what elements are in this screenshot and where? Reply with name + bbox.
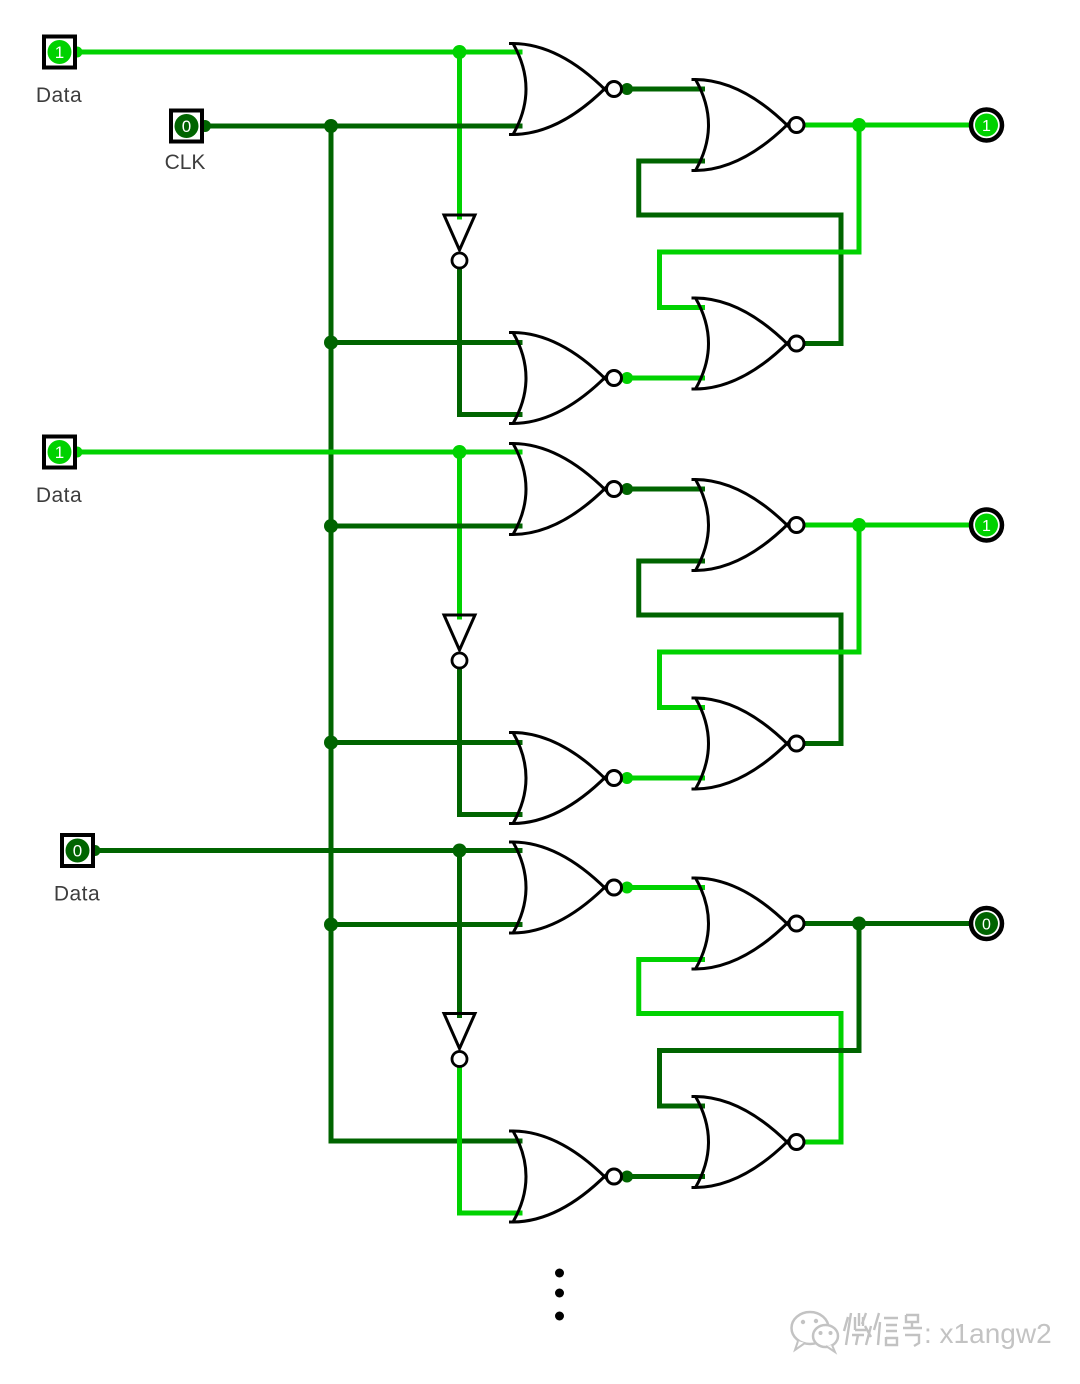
svg-text:1: 1 <box>982 518 991 535</box>
NOR gate G12 <box>692 1097 805 1188</box>
wire Data1 vertical to inverter <box>457 52 462 217</box>
wire gate output G3 to G4 block 1 <box>622 376 703 381</box>
node Q2 junction <box>852 518 866 532</box>
wire CLK vertical bus <box>329 126 334 1141</box>
svg-text:CLK: CLK <box>165 151 206 174</box>
wire Data3 horizontal <box>93 848 520 853</box>
NOR gate G6 <box>692 480 805 571</box>
wire inverter output block 3 <box>460 1068 521 1214</box>
wire Q-bar feedback block 1 <box>639 161 841 344</box>
node gate G9 output dot <box>621 882 633 894</box>
svg-text:: x1angw2: : x1angw2 <box>924 1318 1052 1349</box>
wire CLK branch to gate G9 <box>331 922 520 927</box>
node Data2 pin connection <box>72 447 83 458</box>
NOR gate G3 <box>509 333 622 424</box>
output pin Q1 <box>971 110 1002 141</box>
continuation ellipsis dots <box>555 1269 564 1321</box>
node Data3 junction <box>453 844 467 858</box>
wire CLK overdraw at data2 vertical crossing <box>430 524 492 529</box>
node CLK junction G3 <box>324 336 338 350</box>
wire Q-bar feedback block 2 <box>639 561 841 744</box>
NOR gate G9 <box>509 842 622 933</box>
NOR gate G10 <box>692 878 805 969</box>
wire gate output G7 to G8 block 2 <box>622 776 703 781</box>
inverter INV1 <box>444 215 475 268</box>
wire gate output G11 to G12 block 3 <box>622 1174 703 1179</box>
wire CLK overdraw at data1 vertical crossing <box>430 124 492 129</box>
wire inverter output block 2 <box>460 669 521 815</box>
svg-text:0: 0 <box>182 117 191 136</box>
wire Data2 vertical to inverter <box>457 452 462 617</box>
input pin Data2 <box>44 437 75 468</box>
watermark wechat logo <box>792 1312 839 1352</box>
svg-text:1: 1 <box>982 118 991 135</box>
wire Data3 vertical to inverter <box>457 851 462 1016</box>
wire Q3 feedback <box>660 924 860 1107</box>
NOR gate G4 <box>692 298 805 389</box>
input pin CLK <box>171 111 202 142</box>
NOR gate G5 <box>509 444 622 535</box>
node Data1 junction <box>453 45 467 59</box>
output pin Q3 <box>971 908 1002 939</box>
output pin Q2 <box>971 510 1002 541</box>
node Q1 junction <box>852 118 866 132</box>
wire CLK branch to gate G7 <box>331 740 520 745</box>
wire Q2 feedback <box>660 525 860 708</box>
svg-text:1: 1 <box>55 43 64 62</box>
svg-text:0: 0 <box>73 842 82 861</box>
NOR gate G11 <box>509 1131 622 1222</box>
wire Q3 to output pin <box>804 921 970 926</box>
wire Q1 feedback <box>660 125 860 308</box>
wire CLK branch to gate G11 <box>331 1139 520 1144</box>
node gate G1 output dot <box>621 83 633 95</box>
node CLK junction G5 <box>324 519 338 533</box>
node CLK junction G9 <box>324 918 338 932</box>
wire Q2 to output pin <box>804 523 970 528</box>
wire Q-bar feedback block 3 <box>639 960 841 1143</box>
wire CLK branch to gate G5 <box>331 524 520 529</box>
svg-text:0: 0 <box>982 917 991 934</box>
NOR gate G7 <box>509 733 622 824</box>
node Data2 junction <box>453 445 467 459</box>
wire CLK from pin to gate G1 <box>205 124 520 129</box>
input pin Data3 <box>62 835 93 866</box>
wire gate output G9 to G10 block 3 <box>622 885 703 890</box>
inverter INV2 <box>444 615 475 668</box>
svg-text:Data: Data <box>54 883 100 906</box>
NOR gate G8 <box>692 698 805 789</box>
node gate G11 output dot <box>621 1171 633 1183</box>
NOR gate G2 <box>692 80 805 171</box>
svg-text:1: 1 <box>55 443 64 462</box>
watermark text 微信号: x1angw2 <box>844 1313 922 1346</box>
input pin Data1 <box>44 37 75 68</box>
svg-text:Data: Data <box>36 484 82 507</box>
node Data1 pin connection <box>72 47 83 58</box>
wire gate output G1 to G2 block 1 <box>622 87 703 92</box>
node gate G3 output dot <box>621 372 633 384</box>
node CLK pin connection <box>199 120 211 132</box>
wire inverter output block 1 <box>460 269 521 415</box>
svg-text:Data: Data <box>36 84 82 107</box>
node gate G7 output dot <box>621 772 633 784</box>
inverter INV3 <box>444 1014 475 1067</box>
node Q3 junction <box>852 917 866 931</box>
wire CLK branch to gate G3 <box>331 340 520 345</box>
wire Q1 to output pin <box>804 123 970 128</box>
wire gate output G5 to G6 block 2 <box>622 487 703 492</box>
NOR gate G1 <box>509 44 622 135</box>
wire Data2 horizontal <box>75 450 520 455</box>
node Data3 pin connection <box>90 845 101 856</box>
node CLK junction G7 <box>324 736 338 750</box>
wire Data1 horizontal <box>75 50 520 55</box>
node gate G5 output dot <box>621 483 633 495</box>
node CLK junction row1 <box>324 119 338 133</box>
